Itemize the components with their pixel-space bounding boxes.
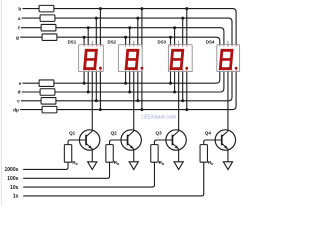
ground arrow (emitter return of Q4) [223, 162, 232, 170]
page border line (left edge) [0, 0, 2, 206]
wire bus g [57, 37, 220, 45]
wire 1s line to Rb of Q4 [23, 162, 204, 196]
wire DS2 pin e to bus e [125, 72, 127, 84]
wire DS2 pin a to bus a [137, 18, 139, 45]
junction DS1/g [83, 36, 86, 39]
wire 100s line to Rb of Q2 [23, 162, 109, 178]
resistor Rb (base resistor of Q4) [200, 145, 207, 163]
wire DS3 pin b to bus b [186, 9, 188, 45]
wire DS4 common pin to Q4 collector [227, 72, 229, 131]
display DS1 (7-segment) [79, 41, 104, 72]
svg-text:DS4: DS4 [206, 39, 215, 44]
resistor Re (segment e series resistor) [39, 80, 54, 87]
wire DS3 pin dp to bus dp [186, 72, 188, 110]
wire segment-g lead-in [20, 36, 42, 38]
resistor Rb (base resistor of Q3) [151, 145, 158, 163]
svg-text:f: f [18, 25, 20, 30]
svg-text:Q2: Q2 [111, 131, 118, 136]
svg-text:b: b [18, 6, 21, 11]
wire DS1 pin e to bus e [83, 72, 85, 84]
wire Q2 base to Rb [110, 140, 128, 145]
wire Q2 emitter [133, 149, 135, 162]
wire Q1 emitter [91, 149, 93, 162]
svg-text:1s: 1s [13, 194, 19, 200]
wire DS2 pin f to bus f [129, 28, 131, 45]
junction DS1/dp [99, 108, 102, 111]
wire bus e [54, 72, 220, 84]
wire DS1 pin d to bus d [87, 72, 89, 92]
wire DS3 pin a to bus a [182, 18, 184, 45]
svg-text:DS2: DS2 [107, 39, 116, 44]
wire DS3 pin d to bus d [174, 72, 176, 92]
svg-text:dp: dp [13, 107, 19, 112]
wire bus f [56, 28, 224, 45]
wire bus dp [57, 72, 236, 110]
wire DS3 pin c to bus c [182, 72, 184, 101]
svg-text:Q4: Q4 [205, 131, 212, 136]
junction DS2/d [128, 91, 131, 94]
wire Q4 base to Rb [204, 140, 222, 145]
display DS4 (7-segment) [217, 41, 240, 72]
display DS3 (7-segment) [168, 41, 192, 72]
junction DS1/d [87, 91, 90, 94]
junction DS3/a [181, 17, 184, 20]
junction DS2/g [124, 36, 127, 39]
wire segment-a lead-in [22, 17, 40, 19]
svg-text:10s: 10s [10, 185, 19, 191]
svg-text:Rb: Rb [72, 160, 77, 166]
wire DS1 common pin to Q1 collector [91, 72, 93, 131]
wire DS2 common pin to Q2 collector [133, 72, 135, 131]
ground arrow (emitter return of Q2) [129, 162, 138, 170]
junction DS1/b [99, 7, 102, 10]
resistor Rb (base resistor of Q1) [64, 145, 71, 163]
wire DS1 pin g to bus g [83, 37, 85, 45]
junction DS3/dp [185, 108, 188, 111]
wire DS1 pin a to bus a [95, 18, 97, 45]
svg-text:DS3: DS3 [157, 39, 166, 44]
transistor Q2 (NPN) [121, 130, 141, 150]
junction DS2/e [124, 82, 127, 85]
wire segment-f lead-in [21, 27, 41, 29]
junction DS3/d [173, 91, 176, 94]
wire DS2 pin d to bus d [129, 72, 131, 92]
wire segment-dp lead-in [20, 109, 42, 111]
junction DS1/f [87, 26, 90, 29]
resistor Rb (segment b series resistor) [39, 5, 54, 12]
display DS2 (7-segment) [118, 41, 143, 72]
resistor Rdp (segment dp series resistor) [42, 106, 57, 113]
wire Q3 emitter [178, 149, 180, 162]
resistor Rb (base resistor of Q2) [106, 145, 113, 163]
junction DS3/c [181, 99, 184, 102]
wire segment-e lead-in [23, 82, 40, 84]
wire segment-c lead-in [21, 100, 41, 102]
junction DS2/c [136, 99, 139, 102]
svg-text:Q3: Q3 [156, 131, 163, 136]
svg-text:Rb: Rb [114, 160, 119, 166]
junction DS1/a [95, 17, 98, 20]
svg-text:DS1: DS1 [68, 39, 77, 44]
wire Q1 base to Rb [68, 140, 86, 145]
transistor Q1 (NPN) [79, 130, 99, 150]
transistor Q4 (NPN) [215, 130, 235, 150]
resistor Rd (segment d series resistor) [40, 89, 55, 96]
junction DS2/dp [140, 108, 143, 111]
svg-text:Rb: Rb [208, 160, 213, 166]
wire DS3 pin g to bus g [170, 37, 172, 45]
wire DS2 pin b to bus b [141, 9, 143, 45]
wire DS1 pin f to bus f [87, 28, 89, 45]
junction DS3/f [173, 26, 176, 29]
wire bus d [55, 72, 224, 92]
wire DS2 pin g to bus g [125, 37, 127, 45]
svg-text:e: e [19, 81, 22, 86]
wire DS1 pin c to bus c [95, 72, 97, 101]
junction DS1/e [83, 82, 86, 85]
svg-text:Rb: Rb [159, 160, 164, 166]
wire 1000s line to Rb of Q1 [23, 162, 68, 169]
svg-text:g: g [16, 35, 19, 40]
wire DS3 pin f to bus f [174, 28, 176, 45]
svg-text:c: c [17, 99, 20, 104]
svg-text:LEDnique.com: LEDnique.com [141, 115, 177, 121]
svg-text:100s: 100s [7, 176, 18, 182]
resistor Rc (segment c series resistor) [41, 98, 56, 105]
wire segment-d lead-in [22, 91, 40, 93]
junction DS2/b [140, 7, 143, 10]
ground arrow (emitter return of Q1) [88, 162, 97, 170]
ground arrow (emitter return of Q3) [174, 162, 183, 170]
wire bus a [55, 18, 232, 45]
junction DS2/f [128, 26, 131, 29]
resistor Rf (segment f series resistor) [41, 24, 56, 31]
transistor Q3 (NPN) [166, 130, 186, 150]
wire segment-b lead-in [23, 8, 40, 10]
junction DS1/c [95, 99, 98, 102]
junction DS3/g [169, 36, 172, 39]
wire DS1 pin dp to bus dp [99, 72, 101, 110]
resistor Rg (segment g series resistor) [42, 34, 57, 41]
resistor Ra (segment a series resistor) [40, 15, 55, 22]
wire DS2 pin c to bus c [137, 72, 139, 101]
wire 10s line to Rb of Q3 [23, 162, 154, 187]
wire DS3 common pin to Q3 collector [178, 72, 180, 131]
wire bus c [56, 72, 232, 101]
wire Q4 emitter [227, 149, 229, 162]
svg-text:d: d [18, 90, 21, 95]
wire DS2 pin dp to bus dp [141, 72, 143, 110]
wire Q3 base to Rb [154, 140, 172, 145]
wire DS1 pin b to bus b [99, 9, 101, 45]
junction DS2/a [136, 17, 139, 20]
svg-text:Q1: Q1 [69, 131, 76, 136]
svg-text:a: a [18, 16, 21, 21]
wire bus b [54, 9, 236, 45]
junction DS3/e [169, 82, 172, 85]
junction DS3/b [185, 7, 188, 10]
svg-text:1000s: 1000s [4, 167, 18, 173]
wire DS3 pin e to bus e [170, 72, 172, 84]
